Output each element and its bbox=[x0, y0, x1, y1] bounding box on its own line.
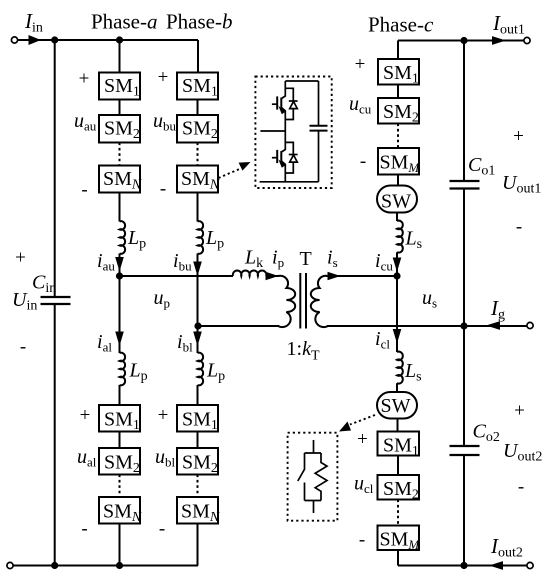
arrow Q2 emitter bbox=[278, 159, 285, 167]
wire bbox=[119, 193, 121, 222]
wire bottom rail bbox=[260, 181, 319, 183]
wire lower bus right bbox=[327, 325, 527, 327]
svg-text:Phase-b: Phase-b bbox=[166, 10, 233, 34]
svg-text:SW: SW bbox=[381, 191, 411, 213]
node phase-c mid (i_cu) bbox=[393, 272, 400, 279]
wire u_p top bus bbox=[120, 275, 234, 277]
inductor Lk coil bbox=[233, 270, 267, 276]
svg-text:SM2: SM2 bbox=[182, 452, 218, 477]
svg-text:-: - bbox=[159, 519, 165, 540]
inductor Lp coil bbox=[198, 353, 204, 386]
wire bbox=[197, 254, 199, 277]
arrow I_in bbox=[29, 35, 42, 45]
capacitor Cin bbox=[41, 297, 71, 304]
svg-text:SM2: SM2 bbox=[383, 101, 419, 126]
wire left rail lower bbox=[54, 304, 56, 566]
submodule SMN box bbox=[177, 497, 218, 524]
submodule SM2 box bbox=[99, 448, 140, 475]
wire bottom lead bbox=[313, 501, 315, 514]
arrow i_cl bbox=[393, 329, 402, 344]
svg-text:Uout1: Uout1 bbox=[502, 172, 541, 197]
svg-text:ibl: ibl bbox=[177, 331, 193, 355]
svg-text:Phase-a: Phase-a bbox=[91, 10, 158, 34]
phase-c upper arm bbox=[377, 59, 419, 276]
inductor Lp coil bbox=[120, 353, 126, 386]
wire capacitor branch bbox=[318, 81, 320, 126]
arrow i_cu bbox=[393, 258, 402, 273]
svg-text:SM2: SM2 bbox=[383, 478, 419, 503]
terminal bottom-left open circle bbox=[7, 562, 13, 568]
terminal Ig open circle bbox=[527, 322, 533, 328]
svg-text:+: + bbox=[513, 126, 524, 147]
terminal Iout2 open circle bbox=[527, 562, 533, 568]
svg-text:Ig: Ig bbox=[490, 296, 505, 323]
switch SW oval bbox=[377, 392, 417, 419]
arrow Q1 emitter bbox=[278, 106, 285, 114]
submodule SM1 box bbox=[177, 73, 218, 100]
svg-text:Cin: Cin bbox=[32, 272, 56, 297]
node right rail mid bbox=[460, 322, 467, 329]
svg-text:1:kT: 1:kT bbox=[287, 338, 320, 364]
transistor Q1 IGBT bbox=[281, 81, 285, 99]
svg-text:Lp: Lp bbox=[129, 360, 148, 385]
svg-text:-: - bbox=[160, 179, 166, 200]
wire top rail bbox=[285, 80, 318, 82]
submodule SM2 box bbox=[378, 475, 420, 500]
svg-text:SMM: SMM bbox=[380, 152, 421, 176]
wire top-right bus bbox=[398, 40, 524, 42]
dashed arrow SW to detail bbox=[350, 415, 375, 425]
svg-text:ual: ual bbox=[77, 446, 97, 470]
svg-text:-: - bbox=[360, 151, 366, 172]
svg-text:Lp: Lp bbox=[206, 360, 225, 385]
capacitor Co2 bbox=[450, 446, 480, 455]
svg-text:+: + bbox=[158, 405, 169, 426]
svg-text:SM2: SM2 bbox=[182, 118, 218, 143]
svg-text:Lk: Lk bbox=[244, 247, 263, 272]
arrow i_au bbox=[115, 257, 124, 272]
phase-b lower arm bbox=[177, 326, 218, 566]
svg-text:SMN: SMN bbox=[181, 501, 220, 526]
svg-text:SM2: SM2 bbox=[104, 452, 140, 477]
wire dotted continuation bbox=[397, 124, 399, 149]
phase-a upper arm bbox=[99, 73, 140, 277]
wire to transformer bbox=[266, 275, 279, 277]
arrow i_al bbox=[115, 332, 124, 347]
phase-a lower arm bbox=[99, 276, 140, 566]
wire phase-c top drop bbox=[397, 41, 399, 60]
svg-text:SMN: SMN bbox=[181, 168, 220, 193]
svg-text:SM1: SM1 bbox=[383, 435, 419, 460]
node phase-a bottom bbox=[116, 562, 123, 569]
svg-text:+: + bbox=[355, 54, 366, 75]
svg-text:Ls: Ls bbox=[405, 228, 423, 253]
svg-text:Ls: Ls bbox=[404, 360, 422, 385]
node bottom rail left bbox=[51, 562, 58, 569]
submodule SMN box bbox=[99, 166, 140, 193]
submodule SM1 box bbox=[99, 73, 140, 100]
wire bottom-right bus bbox=[398, 565, 527, 567]
dashed arrow SMN to detail bbox=[219, 168, 242, 178]
svg-text:Lp: Lp bbox=[205, 227, 224, 252]
wire top lead bbox=[313, 440, 315, 453]
node phase-a top bbox=[116, 36, 123, 43]
switch blade bbox=[298, 453, 305, 481]
svg-text:icl: icl bbox=[375, 328, 390, 352]
submodule SMN box bbox=[177, 166, 218, 193]
wire bottom bar bbox=[305, 500, 322, 502]
svg-text:us: us bbox=[422, 287, 437, 311]
svg-text:SM2: SM2 bbox=[104, 118, 140, 143]
submodule SM2 box bbox=[177, 448, 218, 475]
phase-b upper arm bbox=[177, 73, 218, 327]
inductor Lp coil bbox=[198, 221, 204, 254]
svg-text:ip: ip bbox=[272, 247, 284, 271]
submodule SM2 box bbox=[99, 115, 140, 143]
arrow I_out1 bbox=[492, 36, 506, 45]
svg-text:T: T bbox=[300, 248, 312, 270]
svg-text:+: + bbox=[357, 429, 368, 450]
submodule detail dashed box bbox=[255, 77, 331, 189]
wire top bar bbox=[305, 452, 322, 454]
svg-text:Co1: Co1 bbox=[468, 154, 495, 179]
wire bbox=[197, 193, 199, 222]
svg-text:-: - bbox=[516, 217, 522, 238]
capacitor Co1 bbox=[450, 181, 480, 189]
svg-text:uau: uau bbox=[74, 110, 97, 134]
wire lower bus left bbox=[198, 325, 279, 327]
wire right rail segments bbox=[463, 41, 465, 182]
arrow i_p bbox=[266, 272, 279, 280]
arrow I_g bbox=[486, 321, 500, 330]
wire dotted continuation bbox=[197, 143, 199, 166]
wire bbox=[396, 213, 398, 222]
svg-text:ubu: ubu bbox=[153, 110, 177, 134]
wire bbox=[119, 254, 121, 277]
svg-text:+: + bbox=[514, 401, 525, 422]
wire secondary top to node bbox=[326, 275, 397, 277]
wire bottom-left bus bbox=[13, 565, 198, 567]
phase-c lower arm bbox=[377, 326, 419, 566]
submodule SM1 box bbox=[177, 405, 218, 432]
svg-text:iau: iau bbox=[97, 250, 115, 274]
node phase-b lower bus bbox=[194, 322, 201, 329]
inductor Ls coil bbox=[397, 221, 403, 253]
svg-text:SW: SW bbox=[381, 395, 411, 417]
wire output mid lead bbox=[260, 130, 285, 132]
svg-text:icu: icu bbox=[375, 250, 393, 274]
wire left rail upper bbox=[54, 40, 56, 297]
svg-text:Co2: Co2 bbox=[473, 421, 500, 446]
middle buses bbox=[120, 270, 528, 328]
node right rail top bbox=[460, 37, 467, 44]
svg-text:SM1: SM1 bbox=[182, 409, 218, 434]
svg-text:Iin: Iin bbox=[24, 9, 43, 36]
diode D1 bbox=[285, 88, 293, 101]
transformer core bbox=[299, 273, 301, 329]
svg-text:ial: ial bbox=[97, 331, 112, 355]
arrow i_s bbox=[328, 272, 341, 280]
svg-text:ucu: ucu bbox=[349, 93, 372, 117]
svg-text:-: - bbox=[20, 337, 26, 358]
transformer T secondary winding bbox=[311, 276, 328, 327]
wire phase-a top drop bbox=[119, 40, 121, 73]
inductor Lp coil bbox=[120, 221, 126, 254]
terminal input open circle bbox=[11, 37, 17, 43]
wire bbox=[197, 100, 199, 116]
arrow I_out2 bbox=[489, 561, 503, 570]
inductor Ls coil bbox=[397, 352, 403, 384]
node A phase-a mid bbox=[116, 272, 123, 279]
svg-text:up: up bbox=[154, 287, 171, 311]
svg-text:SM1: SM1 bbox=[182, 75, 218, 100]
svg-text:Lp: Lp bbox=[127, 227, 146, 252]
wire phase-c mid drop bbox=[396, 276, 398, 326]
submodule SM1 box bbox=[378, 59, 419, 85]
terminal Iout1 open circle bbox=[524, 37, 530, 43]
svg-text:ucl: ucl bbox=[354, 473, 374, 497]
svg-text:ibu: ibu bbox=[173, 250, 192, 274]
svg-text:SM1: SM1 bbox=[104, 75, 140, 100]
submodule SMN box bbox=[99, 497, 140, 524]
submodule SMM box bbox=[378, 148, 419, 175]
svg-text:-: - bbox=[81, 180, 87, 201]
wire bbox=[396, 252, 398, 276]
svg-text:-: - bbox=[518, 477, 524, 498]
submodule SM1 box bbox=[99, 405, 140, 432]
svg-text:SM1: SM1 bbox=[383, 62, 419, 87]
wire phase-b top drop bbox=[197, 40, 199, 73]
node right rail bottom bbox=[460, 562, 467, 569]
svg-text:Phase-c: Phase-c bbox=[368, 13, 434, 37]
submodule SMM box bbox=[378, 526, 420, 551]
svg-text:Iout2: Iout2 bbox=[490, 534, 523, 561]
svg-text:-: - bbox=[359, 530, 365, 551]
svg-text:+: + bbox=[15, 248, 26, 269]
svg-text:SMN: SMN bbox=[103, 168, 142, 193]
submodule SM2 box bbox=[378, 98, 419, 124]
diode D2 bbox=[285, 142, 293, 154]
svg-text:SMM: SMM bbox=[380, 529, 421, 553]
svg-text:Iout1: Iout1 bbox=[492, 11, 525, 38]
wire bbox=[397, 85, 399, 99]
wire phase-b mid drop bbox=[197, 276, 199, 326]
wire dotted continuation bbox=[119, 143, 121, 166]
transformer T primary winding bbox=[278, 276, 295, 327]
svg-text:-: - bbox=[81, 519, 87, 540]
transistor Q2 IGBT bbox=[281, 131, 285, 152]
wire top-left bus bbox=[18, 39, 198, 41]
SW detail dashed box bbox=[288, 433, 338, 521]
svg-text:+: + bbox=[80, 405, 91, 426]
switch SW oval bbox=[377, 186, 417, 213]
submodule SM2 box bbox=[177, 115, 218, 143]
node top rail left bbox=[51, 36, 58, 43]
wire bbox=[397, 175, 399, 186]
svg-text:is: is bbox=[327, 247, 338, 271]
submodule SM1 box bbox=[378, 432, 420, 456]
svg-text:ubl: ubl bbox=[155, 446, 176, 470]
arrow i_bu bbox=[193, 262, 202, 277]
arrow i_bl bbox=[193, 332, 202, 347]
capacitor C_SM bbox=[310, 125, 328, 127]
svg-text:SMN: SMN bbox=[103, 501, 142, 526]
resistor zigzag bbox=[315, 453, 327, 501]
svg-text:+: + bbox=[79, 69, 90, 90]
svg-text:+: + bbox=[158, 67, 169, 88]
svg-text:Uout2: Uout2 bbox=[503, 440, 542, 465]
svg-text:SM1: SM1 bbox=[104, 409, 140, 434]
wire bbox=[119, 100, 121, 116]
